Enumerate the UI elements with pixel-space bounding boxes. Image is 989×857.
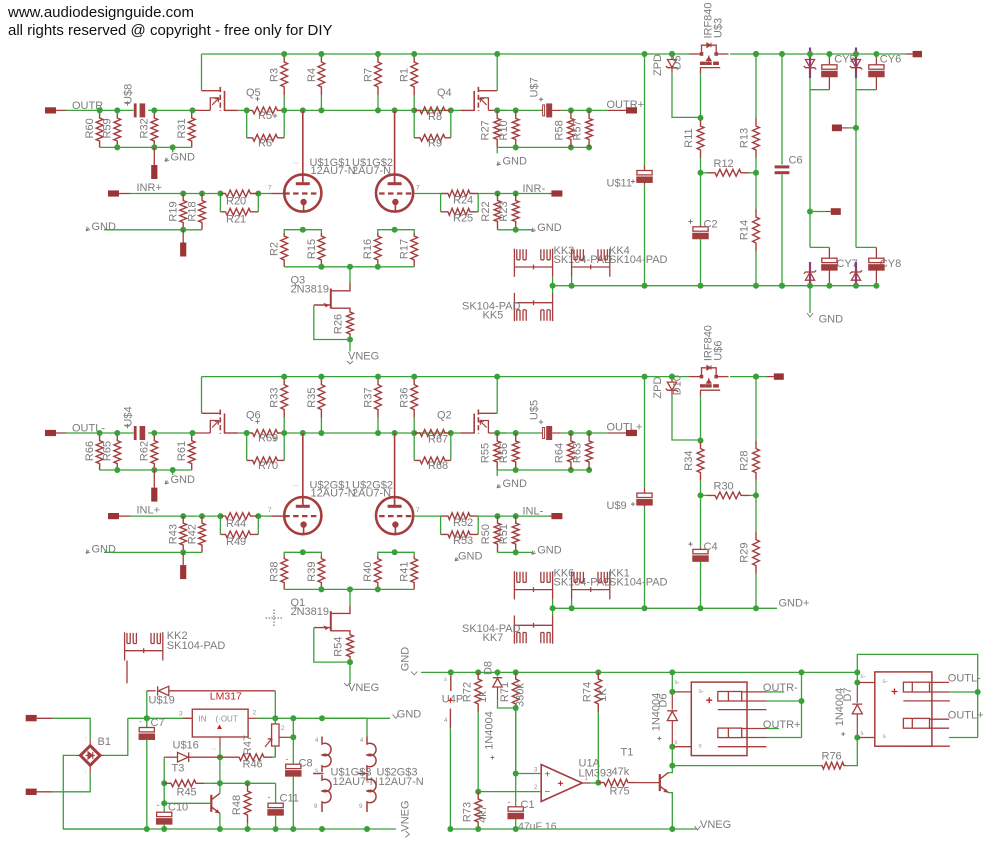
tube U$1G$1 [284,174,321,211]
svg-text:R39: R39 [306,562,318,582]
svg-text:12AU7-N: 12AU7-N [333,776,378,788]
svg-text:U$5: U$5 [529,400,541,420]
svg-text:KK5: KK5 [483,310,504,322]
svg-text:GND+: GND+ [779,598,810,610]
svg-text:D5: D5 [672,55,684,69]
resistor R33 [283,418,285,433]
svg-text:U$19: U$19 [149,695,175,707]
svg-text:R17: R17 [399,239,411,259]
svg-text:T3: T3 [172,763,185,775]
svg-text:R37: R37 [362,388,374,408]
svg-text:R6: R6 [258,137,272,149]
svg-text:R41: R41 [399,562,411,582]
capacitor U$11 branch [644,54,646,165]
resistor R23 [512,194,519,230]
resistor R32 [151,110,158,147]
vneg flag [349,662,351,684]
jfet Q1 [349,589,351,605]
svg-text:R36: R36 [399,388,411,408]
svg-text:R19: R19 [168,201,180,221]
wire vneg rail psu [63,828,396,830]
capacitor U$4 [134,426,137,440]
resistor R27 [494,110,501,147]
svg-text:12AU7-N: 12AU7-N [311,165,356,177]
svg-text:R4: R4 [306,68,318,82]
wire t1 collector node [672,765,820,767]
capacitor CY5 diode [809,48,811,79]
wire mosfet drop [700,396,702,443]
resistor R6 loop [246,110,248,137]
heatsink KK7 [514,616,552,644]
svg-text:R47: R47 [242,735,254,755]
resistor R36 [413,418,415,433]
resistor R57 [586,110,593,147]
mosfet IRF840 U$6 [700,375,704,379]
resistor R15 [318,233,325,267]
svg-text:R46: R46 [243,759,263,771]
resistor R8 [414,107,451,114]
relay K1 contact A common [767,700,802,702]
svg-text:R22: R22 [480,201,492,221]
svg-text:R14: R14 [738,220,750,240]
wire cathode bottom row [284,266,414,268]
wire pad to bridge [53,718,91,738]
capacitor U$7 [541,109,543,111]
wire cathode 2 [378,230,414,233]
resistor R66 [96,433,103,470]
svg-text:R13: R13 [738,128,750,148]
capacitor U$5 [541,432,543,434]
resistor R58 [568,110,575,147]
svg-text:4k7: 4k7 [477,805,489,823]
heatsink KK2 [125,632,163,660]
svg-text:R1: R1 [399,68,411,82]
wire relay1 common drop [801,672,803,737]
svg-text:7: 7 [268,507,272,514]
mosfet IRF840 U$3 [700,52,704,56]
resistor R5 [247,107,285,114]
svg-text:R35: R35 [306,388,318,408]
resistor R69 [247,430,285,437]
capacitor C1 [508,807,523,819]
resistor R52 [414,515,441,517]
svg-text:12AU7-N: 12AU7-N [379,776,424,788]
heatsink KK4 [572,249,610,277]
relay K2 contact A [903,682,929,692]
svg-text:R66: R66 [84,441,96,461]
svg-text:R58: R58 [553,120,565,140]
svg-text:-: - [268,792,271,802]
relay K1 coil pins [675,691,692,693]
opamp U1A LM393 [541,765,582,802]
svg-text:R16: R16 [362,239,374,259]
svg-text:R38: R38 [269,562,281,582]
resistor R7 [377,95,379,110]
svg-text:R71: R71 [499,682,511,702]
resistor R46 [272,756,275,758]
diode D7 [856,672,858,683]
svg-text:1N4004: 1N4004 [834,688,846,727]
wire op+ input [516,773,542,775]
svg-text:U$16: U$16 [173,740,199,752]
resistor R12 [701,172,708,174]
pad mid right 2 [831,208,841,215]
svg-text:INL-: INL- [523,506,544,518]
input test pad [182,552,184,565]
wire output row left [66,432,134,434]
svg-text:Q2: Q2 [437,410,452,422]
svg-text:U4P: U4P [442,694,463,706]
relay K2 coil pins [859,682,875,684]
svg-text:2AU7-N: 2AU7-N [352,487,391,499]
svg-text:R3: R3 [269,68,281,82]
svg-text:R40: R40 [362,562,374,582]
svg-text:R50: R50 [480,524,492,544]
relay K1 contact B [718,728,742,738]
resistor R11 [700,158,702,173]
wire d8 to r71 [498,700,516,708]
svg-text:R73: R73 [462,802,474,822]
svg-text:Q5: Q5 [246,87,261,99]
svg-text:...: ... [293,159,299,166]
heater U$1G$3 [313,737,331,813]
resistor R50 [494,516,501,552]
resistor R72 [477,712,479,792]
capacitor C8 [286,764,301,776]
svg-text:INR-: INR- [523,183,546,195]
svg-text:GND: GND [92,543,117,555]
svg-text:s-: s- [861,674,866,680]
svg-text:...: ... [82,769,88,774]
svg-text:s-: s- [699,688,704,695]
svg-text:R57: R57 [572,120,584,140]
mosfet Q2 [478,412,497,414]
svg-text:GND: GND [503,478,528,490]
svg-text:Q6: Q6 [246,410,261,422]
svg-text:C7: C7 [151,717,165,729]
resistor R30 [701,494,708,496]
wire input row [130,515,220,517]
resistor R41 [411,556,418,590]
svg-text:...: ... [293,481,299,488]
svg-text:SK104-PAD: SK104-PAD [167,640,226,652]
svg-text:2N3819: 2N3819 [291,283,330,295]
wire cathode 1 [284,230,321,233]
svg-text:R25: R25 [453,213,473,225]
svg-text:ZPD: ZPD [652,54,664,76]
diode D6 [671,672,673,692]
capacitor CY6 diode [855,48,857,79]
resistor R17 [411,233,418,267]
heatsink KK6 [514,571,552,599]
diode U$16 [219,756,221,758]
wire out rail [257,717,390,719]
capacitor C6 branch [781,54,783,165]
wire relay2 top loop [857,654,977,737]
svg-text:2: 2 [253,710,257,717]
svg-text:R42: R42 [186,524,198,544]
svg-text:47k: 47k [612,766,630,778]
resistor R14 [755,173,757,209]
svg-text:7: 7 [268,185,272,192]
svg-text:-: - [286,754,289,764]
svg-text:T1: T1 [621,747,634,759]
capacitor C10 [163,803,165,811]
resistor R2 [281,233,288,267]
capacitor CY8 cap [875,247,877,258]
relay K1 contact A [718,692,742,702]
resistor R68 loop [413,433,415,460]
svg-text:s: s [861,731,864,737]
wire cap to output pad [561,432,608,434]
heatsink KK3 [514,249,552,277]
svg-text:47uF 16: 47uF 16 [518,821,557,833]
trimmer R47 [274,718,276,724]
resistor R56 [512,433,519,470]
svg-text:R74: R74 [582,682,594,702]
svg-text:R53: R53 [453,535,473,547]
input pad INR+ [108,190,119,196]
heater U$2G$3 [322,718,367,736]
resistor R28 [755,377,757,441]
svg-text:R28: R28 [738,451,750,471]
svg-text:R11: R11 [683,128,695,147]
capacitor CY5 cap [828,54,830,65]
svg-text:Q4: Q4 [437,87,452,99]
ground flag [172,147,174,152]
svg-text:C4: C4 [704,541,718,553]
wire r22 gnd [498,229,533,231]
svg-text:R61: R61 [176,441,188,461]
wire top rail [202,376,690,378]
resistor R63 [586,433,593,470]
svg-text:s: s [675,740,678,746]
svg-text:R12: R12 [714,158,734,170]
resistor R1 [413,95,415,110]
tube U$2G$2 [376,497,413,534]
svg-text:R20: R20 [226,196,246,208]
svg-text:CY7: CY7 [836,258,857,270]
svg-text:s-: s- [675,680,680,686]
wire plate row [284,432,451,434]
svg-text:R27: R27 [479,120,491,140]
svg-text:C10: C10 [168,802,188,814]
svg-text:R75: R75 [610,786,630,798]
crosshair cursor [266,610,283,627]
svg-text:U$7: U$7 [529,77,541,97]
input ground [86,227,90,231]
ground flag mid [496,470,498,476]
resistor R19 [180,194,187,230]
resistor R24 [414,193,441,195]
svg-text:GND: GND [537,544,562,556]
capacitor CY6 cap [875,54,877,65]
svg-text:s: s [315,768,318,774]
resistor R62 [151,433,158,470]
svg-text:U$11: U$11 [607,178,632,190]
resistor R29 [755,495,757,531]
ground stub right [809,286,811,313]
wire plate row [284,109,451,111]
svg-text:D8: D8 [482,661,494,675]
wire trimmer wiper down [292,718,294,763]
svg-text:GND: GND [819,314,844,326]
resistor R16 [374,233,381,267]
wire bottom rail right [553,607,777,609]
wire cy8 link [856,246,876,248]
svg-text:GND: GND [503,155,528,167]
svg-text:GND: GND [171,152,196,164]
zener D10 [671,377,673,383]
svg-text:R43: R43 [168,524,180,544]
tube U$2G$1 [284,497,321,534]
wire u16 left down [163,757,165,803]
wire main positive rail [128,717,192,719]
resistor R48 [247,823,249,829]
wire mosfet source to node [239,109,247,111]
wire gnd rail [421,671,857,673]
wire mosfet to cap [497,109,541,111]
resistor R39 [318,556,325,590]
wire mosfet source to node [239,432,247,434]
resistor R75 [598,779,634,786]
svg-text:SK104-PAD: SK104-PAD [609,576,668,588]
svg-text:C8: C8 [299,758,313,770]
vneg flag [349,340,351,352]
capacitor U$9 branch [644,377,646,488]
svg-text:7: 7 [416,507,420,514]
mosfet Q4 [478,90,497,92]
capacitor C7 [146,718,148,727]
resistor R53 loop [440,516,442,534]
relay K2 coil box [875,672,932,746]
svg-text:GND: GND [537,222,562,234]
svg-text:330k: 330k [514,683,526,707]
wire mosfet to cap [497,432,541,434]
resistor R49 loop [219,516,221,534]
svg-text:R21: R21 [226,214,246,226]
svg-text:R62: R62 [139,441,151,461]
svg-text:R2: R2 [269,242,281,256]
wire cy5 link [810,89,829,91]
relay K2 contact B [903,718,929,728]
resistor R51 [512,516,519,552]
mosfet Q6 [202,412,221,414]
svg-text:all rights reserved @ copyrigh: all rights reserved @ copyright - free o… [8,22,333,39]
pad top left ch2 [767,376,774,378]
resistor R3 [283,95,285,110]
svg-text:R48: R48 [231,795,243,815]
svg-text:R33: R33 [269,388,281,408]
svg-text:INR+: INR+ [137,182,162,194]
wire cy6 link [856,89,876,91]
resistor R38 [281,556,288,590]
pad psu in top [26,715,37,721]
resistor R54 [347,633,354,662]
svg-text:1N4004: 1N4004 [483,711,495,750]
resistor R70 loop [246,433,248,460]
svg-text:s: s [444,677,447,683]
input pad INL+ [108,513,119,519]
wire r76 to relay2 [846,738,857,766]
wire zener to node [672,396,701,440]
svg-text:CY6: CY6 [880,54,901,66]
relay K1 contact B no [718,746,767,748]
svg-text:R49: R49 [226,536,246,548]
wire output row left [66,109,134,111]
svg-text:U$8: U$8 [123,84,135,104]
resistor R44 [220,513,258,520]
resistor R26 [347,311,354,340]
wire top rail [202,53,690,55]
resistor R37 [377,418,379,433]
svg-text:B1: B1 [98,736,111,748]
resistor R43 [180,516,187,552]
mosfet Q5 [202,90,221,92]
svg-text:R54: R54 [333,637,345,657]
svg-text:GND: GND [92,221,117,233]
svg-text:GND: GND [400,647,412,672]
ground flag [172,470,174,475]
capacitor CY8 diode [855,262,857,286]
svg-text:R31: R31 [176,118,188,138]
wire r71 down [515,704,517,806]
pad psu in bottom [26,789,37,795]
svg-text:R63: R63 [572,443,584,463]
svg-text:OUTL-: OUTL- [948,673,981,685]
svg-text:R5: R5 [258,110,272,122]
svg-text:C6: C6 [789,155,803,167]
wire input row [130,193,220,195]
resistor R20 [220,190,258,197]
resistor R13 [755,54,757,118]
svg-text:R15: R15 [306,239,318,259]
wire jfet gate loop [314,628,350,662]
jfet Q3 [349,267,351,283]
svg-text:R51: R51 [498,524,510,544]
wire left bottom row [100,146,192,148]
svg-text:R59: R59 [102,118,114,138]
svg-text:C2: C2 [704,218,718,230]
svg-text:U$9: U$9 [607,500,627,512]
svg-text:VNEG: VNEG [400,800,412,831]
svg-text:VNEG: VNEG [348,682,379,694]
resistor R35 [320,418,322,433]
relay K2 contact A common [949,691,978,693]
svg-text:12AU7-N: 12AU7-N [311,487,356,499]
input test pad [182,230,184,243]
top right pad [906,53,913,55]
svg-text:R8: R8 [428,111,442,123]
svg-text:INL+: INL+ [137,505,161,517]
wire jfet gate loop [314,305,350,339]
power pins U4P [450,672,452,675]
svg-text:GND: GND [458,551,483,563]
relay K2 contact B common [949,737,978,739]
gnd flag psu [393,715,399,719]
capacitor C11 [275,783,277,802]
svg-text:7: 7 [416,185,420,192]
svg-text:R9: R9 [428,137,442,149]
ground flag mid [496,147,498,153]
svg-text:LM317: LM317 [210,691,242,703]
resistor R61 [188,433,195,470]
svg-text:R52: R52 [453,517,473,529]
svg-text:...: ... [82,736,88,741]
bridge rectifier B1 [80,746,100,766]
svg-text:R64: R64 [553,443,565,463]
output pad OUTL- [45,430,56,436]
